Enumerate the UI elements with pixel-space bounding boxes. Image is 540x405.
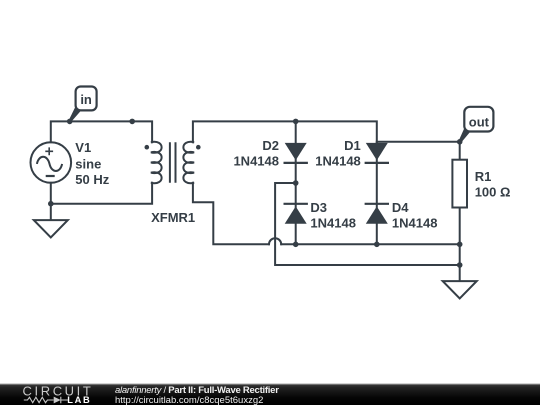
- label D3: [310, 200, 356, 230]
- svg-text:D3: D3: [310, 200, 327, 215]
- node dot top rail mid: [129, 119, 135, 125]
- node dot rail1 right: [457, 242, 463, 248]
- transformer phase dot left: [145, 145, 150, 150]
- wire node M1 left drop: [275, 183, 460, 265]
- node dot D3 bottom: [293, 242, 299, 248]
- flag out: [459, 107, 494, 143]
- svg-text:1N4148: 1N4148: [315, 153, 361, 168]
- svg-text:in: in: [80, 92, 92, 107]
- diode D2: [284, 143, 308, 163]
- ground (right): [443, 281, 477, 298]
- wire out node to R1 top: [459, 142, 461, 160]
- wire D2 branch vertical: [295, 121, 297, 244]
- wire secondary bottom to rail: [193, 183, 269, 245]
- svg-text:http://circuitlab.com/c8cqe5t6: http://circuitlab.com/c8cqe5t6uxzg2: [115, 395, 263, 405]
- wire V1-ground to primary bottom: [51, 183, 152, 204]
- wire D1 branch vertical: [376, 143, 378, 244]
- label V1 value: [75, 140, 109, 187]
- footer logo doodle diode triangle: [54, 397, 61, 404]
- resistor R1: [452, 160, 467, 208]
- wire secondary top rail: [193, 121, 377, 142]
- label D2: [233, 138, 279, 168]
- label D4: [392, 200, 438, 230]
- svg-text:D4: D4: [392, 200, 409, 215]
- voltage source V1: [31, 142, 72, 183]
- svg-text:V1: V1: [75, 140, 91, 155]
- svg-text:1N4148: 1N4148: [233, 153, 279, 168]
- svg-text:100 Ω: 100 Ω: [475, 185, 511, 200]
- flag in: [69, 87, 97, 123]
- node dot out: [457, 139, 463, 145]
- wire top-left rail: [51, 121, 152, 142]
- node dot rail2 right: [457, 262, 463, 268]
- svg-text:D2: D2: [262, 138, 279, 153]
- svg-text:50 Hz: 50 Hz: [75, 172, 109, 187]
- ground (left): [34, 220, 68, 237]
- svg-text:R1: R1: [475, 169, 492, 184]
- diode D1: [365, 143, 389, 163]
- wire R1 bottom to ground: [459, 208, 461, 282]
- node dot D2 top: [293, 119, 299, 125]
- svg-text:sine: sine: [75, 157, 101, 172]
- svg-text:D1: D1: [344, 138, 361, 153]
- wire V1 bottom to ground: [50, 183, 52, 220]
- svg-text:LAB: LAB: [67, 395, 91, 405]
- svg-text:1N4148: 1N4148: [310, 215, 356, 230]
- label R1: [475, 169, 511, 200]
- svg-text:out: out: [469, 115, 490, 130]
- node dot D4 bottom: [374, 242, 380, 248]
- svg-text:1N4148: 1N4148: [392, 215, 438, 230]
- transformer phase dot right: [196, 145, 201, 150]
- node dot V1 ground junction: [48, 201, 54, 207]
- footer bar: [0, 384, 540, 405]
- footer logo doodle resistor-diode: [24, 397, 68, 404]
- wire lower rail right of hop: [281, 243, 460, 245]
- node dot in-flag junction: [67, 119, 73, 125]
- transformer XFMR1: [151, 142, 194, 183]
- label D1: [315, 138, 361, 168]
- svg-text:XFMR1: XFMR1: [151, 210, 195, 225]
- wire out: [377, 141, 460, 143]
- wire hop over vertical: [269, 238, 281, 244]
- diode D4: [365, 204, 389, 224]
- diode D3: [284, 204, 308, 224]
- node dot M1: [293, 180, 299, 186]
